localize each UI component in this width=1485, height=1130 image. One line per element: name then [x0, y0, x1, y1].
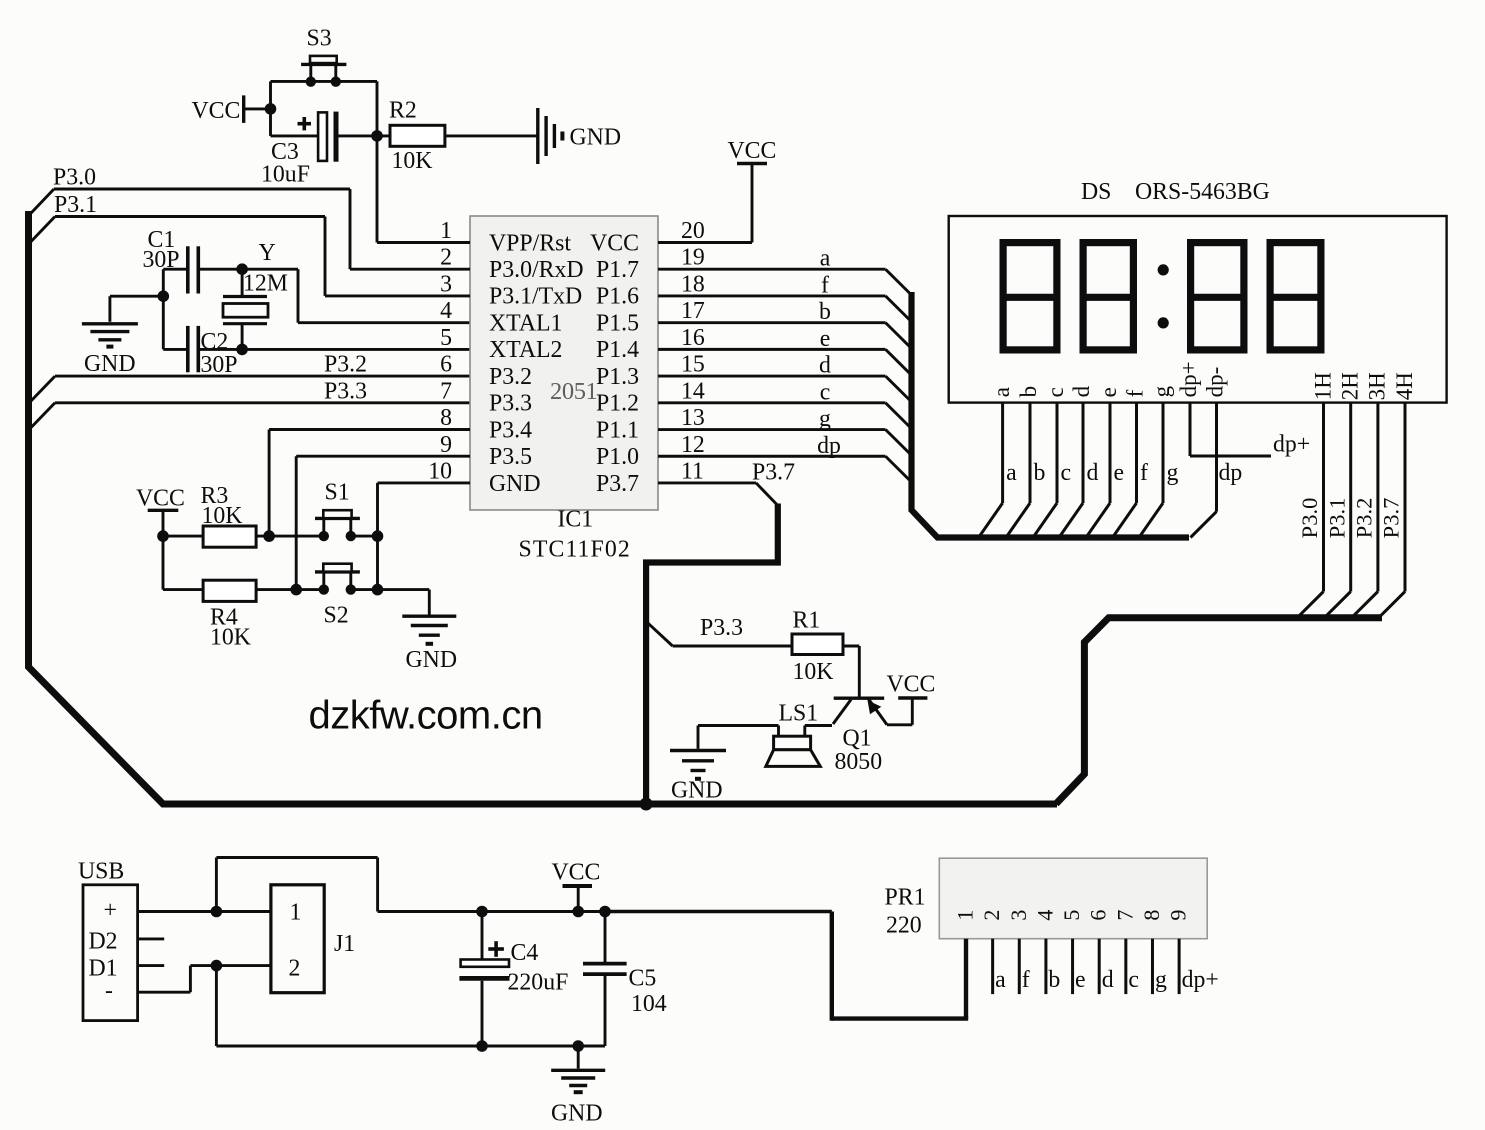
svg-text:GND: GND [570, 125, 622, 151]
node R3-P34 [263, 530, 275, 542]
node S2-GNDnet [372, 584, 384, 596]
wire S1-right [351, 535, 378, 538]
svg-text:10: 10 [428, 458, 452, 484]
svg-text:P3.4: P3.4 [489, 417, 532, 443]
svg-text:dp+: dp+ [1182, 967, 1219, 993]
crystal Y1 [241, 269, 244, 296]
svg-text:P3.1/TxD: P3.1/TxD [489, 284, 582, 310]
wire over J1 [215, 858, 218, 912]
svg-text:dp: dp [1219, 460, 1243, 486]
node crystal top [236, 263, 248, 275]
svg-text:30P: 30P [143, 247, 180, 273]
svg-text:30P: 30P [201, 352, 238, 378]
display colon [1158, 264, 1169, 275]
wire reset loop [269, 81, 272, 135]
svg-text:d: d [1069, 385, 1094, 397]
svg-text:P3.0: P3.0 [1297, 498, 1322, 539]
wire stub D1 [138, 964, 165, 967]
svg-text:a: a [1006, 460, 1017, 486]
svg-text:5: 5 [1059, 910, 1084, 921]
node bus junction [640, 798, 653, 811]
display digits 88:88 [1003, 243, 1057, 350]
wire P3.1 [30, 217, 55, 244]
svg-text:17: 17 [681, 298, 705, 324]
svg-text:4: 4 [440, 298, 452, 324]
svg-text:6: 6 [1086, 910, 1111, 921]
svg-text:P3.2: P3.2 [324, 352, 367, 378]
svg-text:P1.3: P1.3 [596, 364, 639, 390]
svg-text:dp+: dp+ [1176, 361, 1201, 397]
svg-text:GND: GND [551, 1101, 603, 1127]
svg-text:S1: S1 [325, 480, 350, 506]
svg-text:VCC: VCC [192, 98, 241, 124]
svg-text:DS: DS [1081, 179, 1111, 205]
capacitor C5 [604, 912, 607, 964]
svg-text:dzkfw.com.cn: dzkfw.com.cn [309, 694, 543, 738]
wire to keys gnd [378, 588, 430, 591]
svg-text:R2: R2 [389, 98, 417, 124]
svg-text:P3.7: P3.7 [596, 471, 639, 497]
svg-text:P3.2: P3.2 [1352, 498, 1377, 539]
wires display digit pins [1322, 403, 1325, 592]
svg-text:a: a [989, 387, 1014, 397]
wire P1.1 segment g [658, 428, 886, 431]
svg-text:GND: GND [84, 351, 136, 377]
wire P1.7 segment a [658, 268, 886, 271]
transistor Q1 [834, 697, 885, 700]
svg-text:USB: USB [78, 859, 124, 885]
svg-text:2H: 2H [1338, 372, 1363, 400]
svg-text:VCC: VCC [136, 486, 185, 512]
svg-text:5: 5 [440, 325, 452, 351]
wire XTAL2 [242, 348, 470, 351]
svg-text:+: + [104, 898, 117, 924]
svg-text:16: 16 [681, 325, 705, 351]
svg-text:b: b [1034, 460, 1046, 486]
svg-text:19: 19 [681, 245, 705, 271]
svg-text:P1.7: P1.7 [596, 257, 639, 283]
svg-text:ORS-5463BG: ORS-5463BG [1135, 179, 1270, 205]
svg-text:2: 2 [440, 245, 452, 271]
svg-text:g: g [1155, 967, 1167, 993]
svg-text:20: 20 [681, 218, 705, 244]
wire P3.3 tap [646, 621, 673, 646]
svg-text:VCC: VCC [552, 860, 601, 886]
svg-text:1: 1 [953, 910, 978, 921]
wire VCC rail [378, 910, 606, 913]
label C4 plus [488, 947, 504, 951]
svg-text:STC11F02: STC11F02 [519, 537, 631, 563]
svg-text:f: f [821, 272, 829, 298]
svg-text:e: e [1075, 967, 1086, 993]
svg-text:c: c [1128, 967, 1139, 993]
wire gnd drop [577, 1046, 580, 1069]
svg-text:VCC: VCC [887, 672, 936, 698]
svg-text:D2: D2 [89, 929, 118, 955]
svg-text:R1: R1 [793, 608, 821, 634]
resistor R1 [792, 634, 843, 655]
svg-text:P3.7: P3.7 [752, 460, 795, 486]
svg-text:220: 220 [886, 913, 922, 939]
connector USB body [83, 885, 138, 1021]
svg-text:Q1: Q1 [843, 726, 872, 752]
wire P1.0 segment dp [658, 455, 886, 458]
svg-text:8050: 8050 [835, 749, 883, 775]
svg-text:g: g [1167, 460, 1179, 486]
switch S2 [322, 574, 325, 590]
node S1-GNDnet [372, 530, 384, 542]
svg-text:P3.3: P3.3 [489, 391, 532, 417]
svg-text:XTAL1: XTAL1 [489, 310, 562, 336]
wire USB minus [138, 991, 191, 994]
node C3-R2 [371, 130, 383, 142]
svg-text:10K: 10K [210, 625, 251, 651]
wire P3.4 [269, 428, 470, 431]
svg-text:P3.0/RxD: P3.0/RxD [489, 257, 584, 283]
svg-text:P3.1: P3.1 [1324, 498, 1349, 539]
wire S2-right [351, 588, 378, 591]
svg-text:IC1: IC1 [558, 507, 594, 533]
svg-text:a: a [820, 246, 831, 272]
capacitor C4 [481, 912, 484, 960]
node gnd rail [572, 1040, 584, 1052]
wire P1.6 segment f [658, 294, 886, 297]
svg-text:C5: C5 [629, 966, 657, 992]
svg-text:12: 12 [681, 432, 705, 458]
svg-text:c: c [820, 379, 831, 405]
node VCC-R3 [157, 530, 169, 542]
svg-text:d: d [819, 353, 831, 379]
svg-text:S2: S2 [324, 603, 349, 629]
svg-text:P1.1: P1.1 [596, 417, 639, 443]
svg-text:f: f [1022, 967, 1030, 993]
svg-text:9: 9 [1166, 910, 1191, 921]
svg-text:XTAL2: XTAL2 [489, 337, 562, 363]
svg-text:3H: 3H [1365, 372, 1390, 400]
svg-text:10uF: 10uF [261, 162, 310, 188]
wire minus down [215, 966, 218, 1046]
svg-text:13: 13 [681, 405, 705, 431]
svg-text:VCC: VCC [590, 230, 639, 256]
node R4-P35 [290, 584, 302, 596]
svg-text:d: d [1102, 967, 1114, 993]
resistor R4 [203, 580, 256, 601]
svg-text:12M: 12M [243, 271, 288, 297]
ground (buzzer) [670, 749, 726, 752]
bus segments vertical [912, 292, 1190, 538]
display DS body [949, 216, 1447, 403]
svg-text:b: b [819, 299, 831, 325]
ic IC1 body [470, 216, 658, 510]
svg-text:2051: 2051 [550, 378, 597, 405]
svg-text:P3.3: P3.3 [324, 379, 367, 405]
svg-text:1: 1 [440, 218, 452, 244]
wire pin1 [377, 241, 470, 244]
bus P3.7 thick [646, 504, 778, 806]
svg-text:3: 3 [1006, 910, 1031, 921]
wire P3.0 [29, 189, 54, 216]
svg-text:LS1: LS1 [779, 701, 819, 727]
wire PR1 pin1 to VCC [964, 939, 968, 1019]
wire P1.5 segment b [658, 321, 886, 324]
svg-text:J1: J1 [334, 931, 355, 957]
svg-text:dp-: dp- [1203, 367, 1228, 398]
svg-text:10K: 10K [793, 659, 834, 685]
svg-text:11: 11 [681, 458, 704, 484]
capacitor C3 [271, 134, 319, 137]
wire stub D2 [138, 937, 165, 940]
connector J1 body [271, 885, 324, 993]
svg-text:GND: GND [671, 778, 723, 804]
svg-text:Y: Y [259, 240, 276, 266]
wire LS1 to gnd [777, 726, 780, 737]
svg-text:C4: C4 [511, 940, 539, 966]
svg-text:4: 4 [1032, 910, 1057, 921]
svg-text:14: 14 [681, 378, 705, 404]
svg-text:8: 8 [1139, 910, 1164, 921]
svg-text:VCC: VCC [728, 138, 777, 164]
svg-text:1: 1 [290, 900, 302, 926]
wire GND pin10 [378, 481, 471, 484]
capacitor C1 [163, 268, 186, 271]
node VCC-C3 [265, 103, 277, 115]
wire P3.3 [30, 403, 55, 429]
wire P1.2 segment c [658, 401, 886, 404]
svg-text:2: 2 [289, 956, 301, 982]
svg-text:e: e [1096, 387, 1121, 397]
wire dp+ [1189, 403, 1192, 456]
svg-text:P3.1: P3.1 [54, 192, 97, 218]
svg-text:P3.2: P3.2 [489, 364, 532, 390]
svg-text:220uF: 220uF [508, 970, 569, 996]
svg-text:18: 18 [681, 271, 705, 297]
svg-text:c: c [1061, 460, 1072, 486]
wires display segments to bus [1001, 403, 1004, 503]
svg-text:7: 7 [440, 378, 452, 404]
svg-text:e: e [820, 326, 831, 352]
svg-text:10K: 10K [392, 148, 433, 174]
wire P3.7 pin11 [658, 481, 756, 484]
wire P1.3 segment d [658, 375, 886, 378]
svg-text:dp: dp [817, 433, 841, 459]
svg-text:P3.0: P3.0 [53, 165, 96, 191]
svg-text:4H: 4H [1392, 372, 1417, 400]
node C1-GND [158, 290, 170, 302]
svg-text:P1.5: P1.5 [596, 310, 639, 336]
svg-text:VPP/Rst: VPP/Rst [489, 230, 571, 256]
svg-text:g: g [819, 406, 831, 432]
svg-text:b: b [1016, 386, 1041, 398]
svg-text:S3: S3 [307, 26, 332, 52]
svg-text:7: 7 [1112, 910, 1137, 921]
node crystal bottom [236, 344, 248, 356]
svg-text:2: 2 [979, 910, 1004, 921]
svg-text:-: - [105, 978, 113, 1004]
bus thick left bar [29, 211, 1058, 804]
svg-text:c: c [1043, 387, 1068, 397]
wire pin3 [325, 294, 470, 297]
svg-text:a: a [995, 967, 1006, 993]
svg-text:3: 3 [440, 271, 452, 297]
capacitor C2 [163, 348, 186, 351]
wire XTAL1 [242, 268, 298, 271]
svg-text:15: 15 [681, 352, 705, 378]
svg-text:P3.5: P3.5 [489, 444, 532, 470]
wire USB plus [138, 910, 271, 913]
svg-text:f: f [1140, 460, 1148, 486]
svg-text:P1.2: P1.2 [596, 391, 639, 417]
svg-text:P1.4: P1.4 [596, 337, 639, 363]
svg-text:8: 8 [440, 405, 452, 431]
svg-text:GND: GND [489, 471, 541, 497]
node C4 top [476, 906, 488, 918]
wire to crystal gnd [110, 295, 163, 298]
wire pin2 [350, 268, 470, 271]
switch S1 [322, 520, 325, 536]
node vcc rail [572, 906, 584, 918]
node C4 bottom [476, 1040, 488, 1052]
bus digits thick [1056, 618, 1382, 804]
svg-text:10K: 10K [202, 503, 243, 529]
svg-text:P1.0: P1.0 [596, 444, 639, 470]
resistor R2 [390, 125, 445, 146]
label C3 plus [298, 122, 312, 126]
wire collector to LS1 [805, 724, 832, 727]
svg-text:f: f [1123, 389, 1148, 397]
node usb minus [211, 960, 223, 972]
svg-text:GND: GND [406, 647, 458, 673]
wires PR1 pins 2-9 [991, 939, 994, 994]
ground (reset) [536, 108, 539, 164]
resistor network PR1 body [939, 858, 1207, 939]
wire P1.4 segment e [658, 348, 886, 351]
svg-text:P3.7: P3.7 [1379, 498, 1404, 539]
svg-text:PR1: PR1 [885, 885, 926, 911]
ground (keys) [402, 615, 456, 618]
node C5 top [599, 906, 611, 918]
svg-text:6: 6 [440, 352, 452, 378]
ground (crystal) [82, 322, 138, 325]
svg-text:1H: 1H [1310, 372, 1335, 400]
svg-text:b: b [1048, 967, 1060, 993]
svg-text:D1: D1 [89, 956, 118, 982]
svg-text:9: 9 [440, 432, 452, 458]
resistor R3 [203, 526, 256, 547]
switch S3 [309, 66, 312, 82]
svg-text:dp+: dp+ [1273, 432, 1310, 458]
wire P3.2 [30, 376, 55, 402]
svg-text:104: 104 [631, 991, 667, 1017]
svg-text:d: d [1087, 460, 1099, 486]
svg-text:g: g [1149, 385, 1174, 397]
svg-text:P3.3: P3.3 [700, 615, 743, 641]
svg-text:e: e [1114, 460, 1125, 486]
node usb plus [211, 906, 223, 918]
wire P3.5 [296, 455, 470, 458]
ground (supply) [551, 1069, 605, 1072]
wire C1-C2 left [162, 269, 165, 349]
svg-text:P1.6: P1.6 [596, 284, 639, 310]
speaker LS1 [774, 736, 811, 750]
